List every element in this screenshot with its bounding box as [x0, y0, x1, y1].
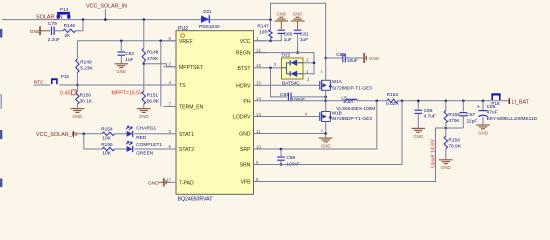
wire PH to L5 — [326, 100, 346, 102]
wire R155 to LED2 — [115, 148, 127, 150]
wire MPPT node down — [143, 64, 145, 92]
svg-text:C81: C81 — [300, 32, 309, 38]
label Upset 14.6V — [431, 139, 437, 168]
svg-text:R150: R150 — [80, 92, 92, 98]
capacitor C79 — [48, 21, 60, 43]
svg-text:GND: GND — [369, 56, 380, 61]
node C84-PH junction — [324, 96, 327, 99]
svg-text:470K: 470K — [147, 56, 159, 62]
svg-text:R155: R155 — [101, 142, 113, 148]
connector P16 — [491, 94, 500, 106]
svg-text:VREF: VREF — [179, 39, 193, 45]
label MPPT=16.5V — [112, 90, 144, 96]
label 0-45 degree — [60, 90, 76, 97]
wire L5 to R152 — [357, 100, 387, 102]
svg-text:D21: D21 — [203, 9, 212, 14]
node SRN-C88 junction — [280, 163, 283, 166]
svg-text:C84: C84 — [280, 92, 289, 98]
svg-text:GND: GND — [148, 180, 159, 186]
resistor R156 — [444, 128, 462, 149]
wire R155 to FB — [445, 123, 447, 128]
svg-text:STAT2: STAT2 — [179, 147, 194, 153]
svg-text:M1B: M1B — [332, 110, 342, 116]
wire MPPTSET jog — [144, 64, 176, 67]
wire P15 to node — [59, 84, 77, 86]
node R155 top junction — [445, 100, 448, 103]
svg-text:R146: R146 — [64, 23, 76, 29]
pin 5 STAT2 — [164, 144, 195, 153]
svg-text:T-PAD: T-PAD — [179, 180, 194, 186]
svg-text:GREEN: GREEN — [136, 151, 154, 157]
svg-text:MPPTSET: MPPTSET — [179, 65, 203, 71]
wire REGN — [254, 53, 315, 74]
svg-text:17: 17 — [166, 177, 171, 182]
ground GND under M1B — [319, 134, 333, 149]
svg-text:+: + — [477, 105, 480, 111]
svg-text:GND: GND — [321, 144, 331, 149]
ground GND under C85 — [476, 120, 490, 135]
power port VCC_SOLAR_IN — [86, 4, 127, 21]
svg-text:GND: GND — [413, 134, 423, 139]
wire HDRV — [267, 84, 320, 86]
node junction MPPT rail tap — [143, 18, 146, 21]
svg-text:GND: GND — [478, 130, 488, 135]
wire SOLAR_IN horizontal — [2, 19, 271, 21]
svg-text:C80: C80 — [284, 32, 293, 38]
resistor R152 — [386, 92, 399, 107]
svg-text:P16: P16 — [491, 101, 500, 106]
pin 4 TS — [164, 80, 187, 89]
pin 17 T-PAD — [164, 177, 194, 186]
capacitor C84 — [280, 92, 305, 103]
capacitor C83 — [326, 52, 363, 64]
svg-text:10: 10 — [256, 144, 261, 149]
svg-text:14: 14 — [256, 96, 261, 101]
svg-text:GND: GND — [239, 132, 251, 138]
svg-text:30.1K: 30.1K — [80, 99, 93, 105]
wire C84 to PH rail — [291, 96, 326, 98]
pin 12 REGN — [236, 48, 267, 57]
wire solar rail to M1A — [325, 58, 327, 79]
node SRP-C88 junction — [280, 148, 283, 151]
capacitor C88 — [277, 149, 300, 167]
svg-text:4.7uF: 4.7uF — [424, 114, 436, 120]
wire edge stub 3 — [0, 130, 2, 139]
pin 16 BTST — [237, 63, 266, 72]
wire port to junction — [74, 133, 102, 135]
wire VREF — [77, 40, 176, 42]
ground GND under C82 — [115, 59, 129, 74]
svg-text:C86: C86 — [424, 108, 433, 114]
svg-text:REGN: REGN — [236, 51, 251, 57]
node BTST junction — [269, 67, 272, 70]
wire PH — [267, 100, 326, 102]
svg-text:13: 13 — [256, 112, 261, 117]
svg-text:EKY-500ELL100ME11D: EKY-500ELL100ME11D — [487, 116, 538, 122]
svg-text:10K: 10K — [102, 135, 111, 141]
svg-text:5.23K: 5.23K — [80, 66, 93, 72]
svg-text:15: 15 — [256, 81, 261, 86]
wire GND pin — [267, 133, 326, 135]
wire SRN — [267, 101, 403, 165]
svg-text:GND: GND — [116, 69, 126, 74]
svg-text:R148: R148 — [147, 50, 159, 56]
svg-text:VLS6045EX-100M: VLS6045EX-100M — [336, 106, 375, 111]
node C87 top junction — [462, 100, 465, 103]
node junction after P14 — [82, 18, 85, 21]
svg-text:R155: R155 — [448, 112, 460, 118]
resistor R146 — [63, 23, 75, 39]
svg-text:R152: R152 — [387, 92, 399, 98]
svg-text:D22: D22 — [282, 53, 291, 59]
svg-text:PDS1040: PDS1040 — [199, 24, 220, 30]
node FB junction — [445, 127, 448, 130]
ground GND under R151 — [137, 104, 151, 119]
pin 7 TERM_EN — [164, 102, 204, 111]
svg-text:SRP: SRP — [240, 147, 251, 153]
svg-text:VFB: VFB — [241, 180, 252, 186]
pin 3 STAT1 — [164, 129, 195, 138]
node TS junction — [76, 84, 79, 87]
node VCC-R147 junction — [269, 40, 272, 43]
pin 6 VREF — [164, 36, 193, 45]
svg-text:LI_BAT: LI_BAT — [512, 99, 530, 105]
IC PU2 BQ24650RVAT — [176, 26, 254, 203]
svg-text:VCC_SOLAR_IN: VCC_SOLAR_IN — [86, 4, 127, 10]
pin 10 SRP — [240, 144, 266, 153]
svg-text:CHARG1: CHARG1 — [136, 126, 156, 132]
svg-text:GND: GND — [73, 114, 83, 119]
wire top bridge — [271, 3, 326, 58]
svg-text:16: 16 — [256, 63, 261, 68]
svg-text:PU2: PU2 — [178, 26, 188, 32]
capacitor C81 — [294, 30, 309, 54]
svg-text:P14: P14 — [60, 7, 69, 12]
pin 14 PH — [243, 96, 266, 105]
diode D22 BAT54C — [274, 53, 309, 87]
wire R154 to LED1 — [115, 133, 127, 135]
svg-text:SI7288DP-T1-GE3: SI7288DP-T1-GE3 — [332, 86, 372, 92]
led COMPLET1 GREEN — [126, 141, 162, 156]
resistor R149 — [76, 59, 94, 73]
capacitor C86 — [415, 101, 436, 124]
svg-text:2K: 2K — [64, 33, 71, 39]
pin 15 HDRV — [236, 81, 266, 90]
wire TERM_EN riser — [160, 41, 162, 107]
wire C79 to R146 — [55, 30, 63, 32]
capacitor C87 — [460, 101, 478, 128]
ground GND above C81 — [291, 12, 305, 30]
ground GND at T-PAD — [148, 178, 166, 186]
svg-text:10R: 10R — [259, 30, 268, 36]
node VREF-TERM_EN junction — [160, 40, 163, 43]
svg-text:GND: GND — [276, 12, 286, 17]
node MPPTSET junction — [143, 62, 146, 65]
node C83 junction — [324, 57, 327, 60]
wire D22 pin2 — [303, 62, 314, 64]
svg-text:470K: 470K — [448, 118, 460, 124]
svg-text:P15: P15 — [61, 74, 70, 79]
svg-text:M1A: M1A — [332, 79, 343, 85]
svg-text:STAT1: STAT1 — [179, 132, 194, 138]
wire BTST — [267, 67, 282, 69]
svg-text:1uF: 1uF — [300, 37, 308, 43]
node LED rows junction — [83, 133, 86, 136]
svg-text:1uF: 1uF — [284, 37, 292, 43]
svg-text:PH: PH — [243, 99, 250, 105]
node SRP tap — [376, 100, 379, 103]
node VCC-C80 junction — [269, 40, 271, 42]
wire VCC rail — [254, 33, 282, 40]
pin 2 MPPTSET — [164, 62, 204, 71]
ground GND above C80 — [275, 12, 289, 30]
capacitor C80 — [278, 30, 293, 43]
capacitor C82 — [118, 41, 135, 63]
ground GND at C79 — [30, 26, 50, 35]
wire LED1 to STAT1 — [134, 133, 163, 135]
inductor L5 — [336, 95, 375, 111]
node SOLAR_IN label — [36, 14, 63, 20]
svg-text:100nF: 100nF — [291, 97, 305, 103]
led CHARG1 RED — [126, 126, 157, 142]
svg-text:C87: C87 — [466, 112, 475, 118]
svg-text:MPPT=16.5V: MPPT=16.5V — [112, 90, 144, 96]
svg-text:GND: GND — [139, 114, 149, 119]
resistor R155 LED — [101, 142, 114, 157]
wire LODRV — [267, 116, 320, 118]
pin 13 LODRV — [233, 112, 266, 121]
wire VREF down to R149 — [76, 41, 78, 59]
node M1B source junction — [324, 132, 327, 135]
wire M1A source to PH — [325, 97, 327, 101]
svg-text:2.2uF: 2.2uF — [48, 37, 60, 43]
node PH junction — [324, 100, 327, 103]
node C86 junction — [417, 100, 420, 103]
wire R152 to battery rail — [398, 100, 509, 102]
svg-text:SI7288DP-T1-GE3: SI7288DP-T1-GE3 — [332, 116, 372, 122]
resistor R154 — [101, 127, 114, 142]
wire BTST to C84 — [271, 68, 287, 97]
ground GND under R156 — [439, 149, 453, 171]
svg-text:56.8K: 56.8K — [147, 99, 160, 105]
node solar-D21 junction — [269, 18, 272, 21]
resistor R151 — [142, 91, 160, 104]
svg-text:LODRV: LODRV — [233, 115, 251, 121]
resistor R148 — [142, 48, 159, 62]
ground GND under R150 — [71, 104, 85, 119]
transistor M1A — [307, 69, 372, 97]
diode D21 PDS1040 — [199, 9, 220, 30]
svg-text:VCC_SOLAR_IN: VCC_SOLAR_IN — [36, 132, 77, 138]
svg-text:RED: RED — [136, 135, 147, 141]
svg-text:R149: R149 — [80, 59, 92, 65]
resistor R150 — [76, 85, 93, 105]
svg-text:SRN: SRN — [240, 163, 251, 169]
wire R146 to rail — [75, 20, 83, 31]
svg-text:COMPLET1: COMPLET1 — [136, 142, 162, 148]
svg-text:C79: C79 — [48, 21, 57, 27]
wire edge stub 4 — [0, 179, 2, 188]
svg-text:GND: GND — [441, 165, 451, 170]
connector P14 — [57, 7, 71, 19]
svg-text:C88: C88 — [286, 155, 295, 161]
svg-text:R147: R147 — [257, 23, 269, 29]
node SRN tap — [401, 100, 404, 103]
wire TS — [77, 84, 163, 86]
wire edge stub 2 — [0, 94, 2, 109]
wire R148 to junction — [143, 62, 145, 64]
node D22 pin2 junction — [313, 62, 316, 65]
wire VFB — [267, 128, 464, 182]
svg-text:R156: R156 — [448, 137, 460, 143]
svg-text:78.9K: 78.9K — [448, 143, 461, 149]
wire R149 to TS node — [76, 73, 78, 85]
pin 8 VFB — [241, 177, 267, 186]
port NTC — [34, 79, 51, 85]
port VCC_SOLAR_IN bottom — [36, 131, 77, 138]
svg-text:47uF: 47uF — [487, 109, 498, 115]
resistor R155 — [444, 101, 460, 124]
svg-text:0-45: 0-45 — [60, 91, 70, 97]
node VREF-C82 junction — [120, 40, 123, 43]
wire row2 start — [84, 148, 102, 150]
svg-text:10uF: 10uF — [347, 58, 358, 64]
ground GND right of C83 — [363, 53, 380, 63]
svg-text:HDRV: HDRV — [236, 83, 251, 89]
ground GND under C86 — [412, 124, 426, 139]
wire SRP — [267, 101, 377, 149]
connector P15 — [51, 74, 69, 84]
wire LED2 to STAT2 — [134, 148, 163, 150]
svg-text:10K: 10K — [102, 151, 111, 157]
pin 11 GND — [239, 129, 266, 138]
wire rows vertical — [83, 134, 85, 149]
svg-text:22pF: 22pF — [466, 118, 477, 124]
capacitor C85 electrolytic — [477, 101, 538, 122]
svg-text:10uH: 10uH — [343, 99, 353, 104]
svg-text:VCC: VCC — [240, 39, 251, 45]
svg-text:R151: R151 — [147, 92, 159, 98]
svg-text:Upset 14.6V: Upset 14.6V — [431, 139, 437, 168]
node C85 junction — [482, 100, 485, 103]
resistor R147 — [257, 20, 272, 41]
svg-text:C82: C82 — [125, 51, 134, 57]
svg-text:C83: C83 — [336, 52, 345, 58]
svg-text:GND: GND — [293, 12, 303, 17]
svg-text:0.02R: 0.02R — [386, 101, 399, 107]
pin 9 SRN — [240, 160, 267, 169]
svg-text:BTST: BTST — [237, 66, 250, 72]
transistor M1B — [305, 101, 373, 134]
pin 1 VCC — [240, 36, 267, 45]
svg-text:BQ24650RVAT: BQ24650RVAT — [178, 196, 214, 202]
svg-text:TS: TS — [179, 83, 186, 89]
svg-text:R154: R154 — [101, 127, 113, 133]
port LI_BAT — [509, 98, 529, 105]
svg-text:TERM_EN: TERM_EN — [179, 105, 204, 111]
svg-text:11: 11 — [256, 129, 261, 134]
wire solar rail down — [143, 20, 145, 48]
wire edge stub 1 — [0, 29, 2, 38]
svg-text:1uF: 1uF — [125, 57, 133, 63]
